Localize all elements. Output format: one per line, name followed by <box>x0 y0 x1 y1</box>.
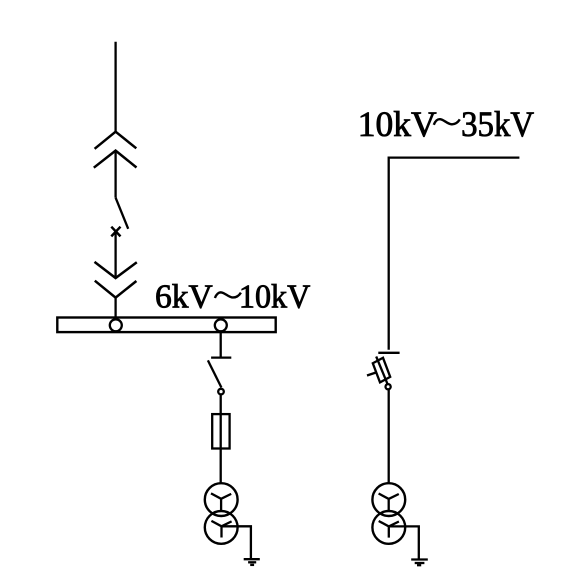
svg-text:10kV: 10kV <box>358 104 437 144</box>
svg-text:10kV: 10kV <box>239 278 310 315</box>
svg-text:6kV: 6kV <box>155 278 213 315</box>
svg-text:35kV: 35kV <box>461 104 534 144</box>
